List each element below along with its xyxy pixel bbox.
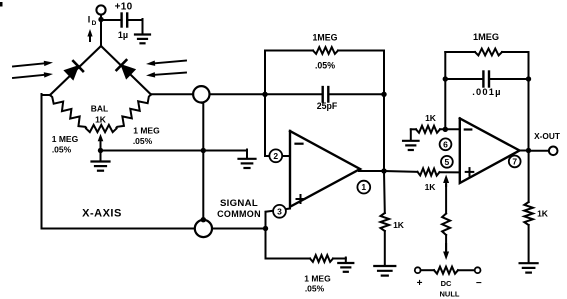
wire feedback-2 right vertical bbox=[528, 52, 530, 151]
wire stub to mid ground bbox=[246, 150, 248, 159]
ground G5 bbox=[374, 266, 395, 276]
pin 3 bbox=[273, 205, 286, 218]
svg-text:SIGNAL: SIGNAL bbox=[220, 198, 258, 209]
label X-OUT bbox=[534, 131, 560, 141]
node bus at upper terminal bbox=[199, 97, 206, 104]
resistor 1MEG (feedback-2) bbox=[475, 49, 502, 56]
svg-text:25pF: 25pF bbox=[317, 101, 338, 111]
label X-AXIS bbox=[82, 208, 122, 220]
node cap-2 left bbox=[443, 76, 448, 81]
terminal X-OUT bbox=[549, 147, 558, 156]
wire feedback-1 left vertical bbox=[264, 51, 266, 157]
wire left branch vertical bbox=[41, 94, 43, 229]
wire feedback-1 top left bbox=[265, 50, 313, 52]
svg-text:2: 2 bbox=[273, 151, 278, 161]
label BAL 1K bbox=[91, 104, 108, 125]
wiper arrow BAL bbox=[98, 134, 104, 151]
wire output to 1K load bbox=[383, 171, 386, 213]
label 1K (U2 load) bbox=[537, 209, 549, 219]
wire bridge right vertex to terminal bbox=[151, 93, 193, 95]
light arrows into D2 bbox=[146, 61, 186, 78]
label 1K (pin 5 input) bbox=[425, 182, 437, 192]
label 1 MEG .05% (non-inverting) bbox=[304, 274, 331, 294]
node bus to lower terminal bbox=[201, 217, 206, 222]
potentiometer BAL 1K element bbox=[86, 125, 117, 132]
wire wiper to signal-common bus bbox=[101, 150, 248, 152]
svg-text:I: I bbox=[88, 15, 91, 25]
node bus crossing bbox=[201, 148, 206, 153]
svg-text:.001µ: .001µ bbox=[472, 87, 501, 97]
node pin3 junction bbox=[263, 226, 268, 231]
wire feedback-2 top right bbox=[502, 51, 529, 53]
wire op-amp 1 output bbox=[359, 169, 384, 171]
op-amp U1 bbox=[290, 131, 360, 207]
svg-text:DC: DC bbox=[441, 279, 452, 288]
svg-text:6: 6 bbox=[443, 139, 448, 149]
svg-text:NULL: NULL bbox=[440, 289, 460, 298]
node pin 6 junction bbox=[443, 127, 448, 132]
node op-amp 1 output bbox=[381, 168, 386, 173]
svg-text:−: − bbox=[476, 278, 482, 289]
light arrows into D1 bbox=[13, 61, 53, 78]
terminal DC NULL left bbox=[415, 267, 421, 273]
wire feedback-1 right vertical bbox=[383, 51, 385, 172]
wire junction to capacitor C1 bbox=[101, 19, 122, 21]
svg-text:+: + bbox=[417, 278, 423, 289]
pin 7 bbox=[509, 156, 521, 168]
label DC NULL bbox=[440, 279, 460, 299]
label ID bias current bbox=[88, 15, 97, 28]
ground G1 (C1) bbox=[135, 35, 150, 44]
label + polarity bbox=[417, 278, 423, 289]
wire G6 to 1K bbox=[411, 129, 416, 140]
wire supply terminal to bridge top bbox=[100, 15, 102, 46]
terminal +10 supply bbox=[96, 2, 132, 15]
pin 2 bbox=[269, 149, 282, 162]
ground G3 (signal common) bbox=[239, 159, 256, 168]
wire X-axis terminal to pin3 junction bbox=[212, 228, 266, 230]
svg-text:1K: 1K bbox=[393, 220, 405, 230]
svg-text:3: 3 bbox=[277, 206, 282, 216]
wire feedback-1 top right bbox=[338, 50, 384, 52]
wire signal-common bus vertical bbox=[202, 102, 204, 221]
wire output to X-OUT terminal bbox=[529, 150, 550, 152]
label 1K (pin 6) bbox=[425, 113, 437, 123]
photodiode D1 bbox=[65, 61, 83, 79]
capacitor 25pF bbox=[265, 87, 384, 111]
wire pin3 node to 1MEG bbox=[266, 229, 311, 259]
svg-text:1K: 1K bbox=[425, 113, 437, 123]
svg-text:COMMON: COMMON bbox=[217, 209, 261, 219]
wire U1 output to 1K bbox=[384, 170, 418, 173]
wire feedback-2 top bbox=[445, 51, 475, 53]
wire bridge upper-right edge bbox=[101, 46, 151, 95]
label 1 MEG .05% (lower-right) bbox=[133, 126, 160, 147]
wire 1K to pin 6 bbox=[440, 128, 460, 130]
wire into pin 3 bbox=[266, 209, 291, 229]
node cap-2 right bbox=[526, 76, 531, 81]
terminal DC NULL right bbox=[475, 267, 481, 273]
resistor 1K load (U2) bbox=[524, 202, 533, 225]
svg-text:1K: 1K bbox=[95, 114, 107, 124]
label 1K (U1 load) bbox=[393, 220, 405, 230]
svg-text:1 MEG: 1 MEG bbox=[52, 134, 79, 144]
label − polarity bbox=[476, 278, 482, 289]
terminal bridge output (upper) bbox=[193, 86, 209, 102]
wiper arrow up to pin 5 wire bbox=[443, 175, 449, 187]
svg-text:1K: 1K bbox=[425, 182, 437, 192]
node supply junction bbox=[98, 17, 103, 22]
wire 1K to ground G5 bbox=[384, 231, 386, 265]
pin 1 bbox=[357, 181, 370, 194]
pin 6 bbox=[440, 138, 452, 150]
svg-text:1MEG: 1MEG bbox=[473, 32, 499, 42]
label 1 MEG .05% (lower-left) bbox=[52, 134, 79, 155]
svg-text:1µ: 1µ bbox=[118, 30, 128, 40]
wiper arrow down to DC NULL pot bbox=[443, 235, 449, 260]
node feedback-1 right junction bbox=[381, 92, 386, 97]
capacitor .001µ bbox=[445, 72, 528, 98]
svg-text:BAL: BAL bbox=[91, 104, 108, 114]
svg-text:+10: +10 bbox=[115, 2, 133, 13]
op-amp U2 bbox=[460, 118, 520, 183]
label 1MEG .05% (feedback-1) bbox=[313, 33, 338, 71]
svg-text:1 MEG: 1 MEG bbox=[304, 274, 331, 284]
resistor 1 MEG (non-inverting) bbox=[310, 255, 333, 262]
svg-text:1K: 1K bbox=[537, 209, 549, 219]
photodiode D2 bbox=[117, 60, 135, 78]
resistor 1K (pin 6) bbox=[416, 126, 440, 133]
potentiometer DC NULL bbox=[434, 267, 458, 274]
svg-text:1 MEG: 1 MEG bbox=[133, 126, 160, 136]
resistor bridge lower-right 1 MEG bbox=[117, 95, 152, 128]
svg-text:1: 1 bbox=[361, 182, 366, 192]
ground G7 bbox=[520, 263, 538, 272]
wire op-amp 2 output bbox=[520, 150, 529, 152]
label SIGNAL COMMON bbox=[217, 198, 261, 219]
svg-text:.05%: .05% bbox=[305, 284, 325, 294]
wire 1MEG to ground G4 bbox=[333, 258, 346, 263]
wire 1K to ground G7 bbox=[528, 225, 530, 262]
resistor wiper element bbox=[442, 214, 450, 236]
terminal X-axis (lower) bbox=[195, 220, 212, 237]
capacitor C1 1µ bbox=[118, 14, 128, 41]
wire X-AXIS horizontal bbox=[42, 228, 195, 230]
wire C1 to ground bbox=[127, 19, 142, 34]
svg-text:7: 7 bbox=[512, 157, 517, 167]
resistor 1K load (U1) bbox=[381, 213, 390, 231]
svg-text:D: D bbox=[92, 20, 97, 27]
resistor bridge lower-left 1 MEG bbox=[50, 95, 86, 128]
wire pot right lead bbox=[458, 269, 475, 271]
ground G6 bbox=[403, 141, 419, 150]
resistor 1K (pin 5 input) bbox=[418, 168, 440, 175]
resistor 1MEG feedback bbox=[313, 47, 338, 54]
node inverting input junction bbox=[262, 92, 267, 97]
scan speck bbox=[0, 2, 3, 7]
wire left vertex stub bbox=[42, 94, 51, 96]
node op-amp 2 output bbox=[526, 148, 531, 153]
wire feedback-2 left vertical bbox=[444, 52, 446, 129]
wire bridge upper-left edge bbox=[50, 46, 101, 95]
label 1MEG (feedback-2) bbox=[473, 32, 499, 42]
node wiper junction bbox=[98, 148, 103, 153]
wire 1K to pin 5 bbox=[440, 171, 460, 173]
svg-text:.05%: .05% bbox=[52, 145, 72, 155]
svg-text:.05%: .05% bbox=[315, 61, 335, 71]
wire output to 1K load (U2) bbox=[528, 151, 530, 203]
svg-text:.05%: .05% bbox=[133, 136, 153, 146]
svg-text:1MEG: 1MEG bbox=[313, 33, 338, 43]
wire wiper vertical upper bbox=[445, 185, 447, 214]
wire into pin 2 bbox=[265, 155, 290, 157]
ground G2 (wiper) bbox=[92, 151, 110, 171]
wire terminal to inverting node bbox=[210, 93, 266, 95]
svg-text:X-AXIS: X-AXIS bbox=[82, 208, 122, 220]
svg-text:X-OUT: X-OUT bbox=[534, 131, 560, 141]
current arrow ID bbox=[87, 29, 92, 41]
pin 5 bbox=[441, 156, 453, 168]
svg-text:5: 5 bbox=[445, 157, 450, 167]
ground G4 bbox=[338, 263, 353, 272]
wire pot left lead bbox=[421, 269, 434, 271]
